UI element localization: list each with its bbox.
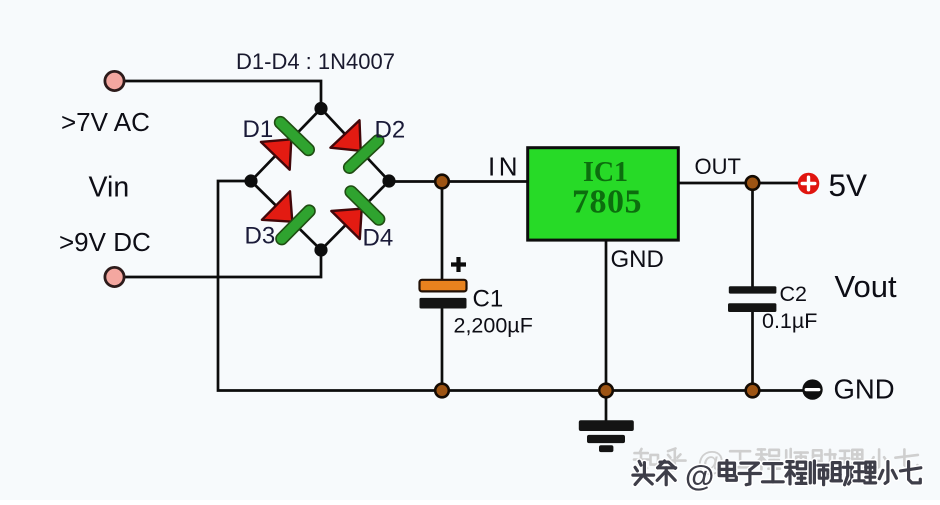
svg-text:D1: D1 [243,116,274,143]
svg-text:0.1µF: 0.1µF [762,309,817,333]
svg-text:7805: 7805 [572,184,642,221]
svg-text:>7V AC: >7V AC [61,107,150,137]
svg-text:IN: IN [488,152,521,182]
svg-text:C2: C2 [780,282,807,306]
svg-text:Vin: Vin [89,172,130,204]
svg-text:>9V DC: >9V DC [59,227,151,257]
svg-text:C1: C1 [473,286,504,313]
svg-text:D1-D4 : 1N4007: D1-D4 : 1N4007 [236,49,395,74]
svg-text:@: @ [685,460,714,493]
svg-text:5V: 5V [829,167,868,203]
svg-text:GND: GND [611,246,664,273]
svg-text:D4: D4 [363,225,394,252]
svg-text:D2: D2 [375,117,406,144]
svg-text:2,200µF: 2,200µF [454,314,533,338]
svg-text:D3: D3 [245,223,276,250]
svg-text:GND: GND [834,374,895,405]
svg-text:OUT: OUT [695,154,741,179]
svg-text:Vout: Vout [835,269,897,304]
